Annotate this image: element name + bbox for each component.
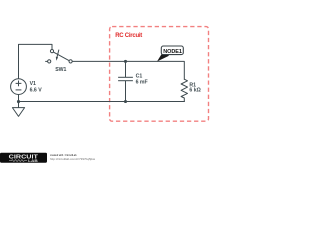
ground bbox=[12, 102, 24, 117]
switch SW1 bbox=[45, 50, 72, 64]
svg-text:SW1: SW1 bbox=[55, 67, 66, 73]
voltage source V1 bbox=[11, 79, 27, 95]
junction dot C1 top bbox=[124, 60, 127, 63]
junction dot C1 bottom bbox=[124, 100, 127, 103]
switch actuator arrowhead bbox=[56, 57, 58, 61]
svg-text:LAB: LAB bbox=[28, 158, 38, 163]
resistor R1 bbox=[181, 79, 187, 101]
svg-text:http://circuitlab.com/c/7397bq: http://circuitlab.com/c/7397bq5jkw bbox=[50, 157, 96, 161]
dashed annotation box bbox=[110, 27, 209, 122]
svg-text:6 kΩ: 6 kΩ bbox=[189, 88, 200, 94]
svg-text:V1: V1 bbox=[30, 81, 36, 87]
NODE1 box bbox=[161, 46, 183, 55]
watermark logo bar bbox=[0, 153, 47, 163]
svg-text:6.6 V: 6.6 V bbox=[30, 87, 43, 93]
svg-text:NODE1: NODE1 bbox=[163, 49, 182, 55]
svg-text:C1: C1 bbox=[136, 73, 143, 79]
wire node1 net bbox=[72, 61, 184, 79]
junction dot V1/ground bbox=[17, 100, 20, 103]
wire bottom bbox=[19, 101, 185, 103]
capacitor C1 bbox=[118, 61, 133, 101]
wire top-left bbox=[19, 44, 53, 78]
NODE1 flag pointer bbox=[157, 54, 169, 61]
svg-text:RC Circuit: RC Circuit bbox=[115, 33, 142, 39]
svg-text:6 mF: 6 mF bbox=[136, 80, 148, 86]
wire V1 bottom lead bbox=[18, 95, 20, 102]
watermark resistor zigzag bbox=[9, 160, 27, 162]
